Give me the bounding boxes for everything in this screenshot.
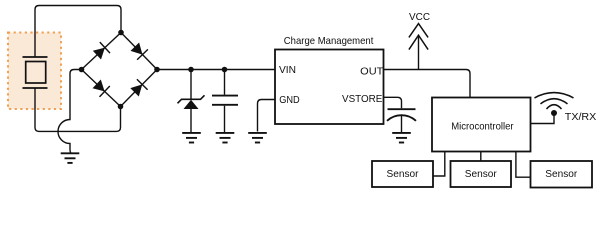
wire: sensor S1 to microcontroller [433, 152, 445, 177]
svg-text:VIN: VIN [279, 64, 296, 76]
wire: GND pin to ground [258, 100, 276, 132]
wire: bridge right corner to VIN pin [157, 69, 275, 71]
wire: sensor S3 to microcontroller [516, 152, 531, 178]
bridge diode D1 (left to top) [93, 42, 110, 59]
ground (GND pin) [248, 133, 267, 143]
node: bridge bottom (AC in) [118, 104, 124, 110]
piezo element X1 [23, 57, 48, 88]
ground (bridge negative) [61, 153, 80, 163]
IC U2: Microcontroller box [432, 98, 531, 152]
svg-text:Sensor: Sensor [387, 168, 419, 180]
wire: bridge left corner to ground (with crossover hop) [58, 70, 82, 154]
svg-text:GND: GND [279, 94, 300, 106]
sensor box S1 [372, 161, 433, 187]
wire: piezo bottom to bridge bottom corner [35, 88, 121, 131]
svg-text:Sensor: Sensor [545, 168, 577, 180]
node: bridge right (DC+) [154, 67, 160, 73]
wire: OUT pin to microcontroller [384, 70, 471, 98]
node: bridge top (AC in) [118, 30, 124, 36]
zener diode Z1 [178, 70, 205, 134]
node: zener tap [188, 67, 194, 73]
piezo transducer enclosure (dashed box) [8, 33, 61, 110]
svg-text:OUT: OUT [360, 66, 384, 78]
ground (C2) [392, 133, 411, 143]
svg-text:VCC: VCC [409, 11, 430, 23]
ground (zener) [182, 133, 201, 143]
bridge diode D2 (top to right) [131, 43, 148, 60]
wire: VSTORE pin to storage capacitor [384, 97, 402, 108]
wire: microcontroller to antenna [531, 113, 555, 124]
svg-text:Charge Management: Charge Management [284, 35, 374, 47]
svg-text:Microcontroller: Microcontroller [451, 120, 514, 132]
capacitor C1 [212, 70, 238, 133]
wire: sensor S2 to microcontroller [480, 152, 482, 162]
sensor box S2 [451, 161, 512, 187]
storage capacitor C2 (polarized) [387, 109, 416, 132]
ground (C1) [216, 133, 235, 143]
IC U1: Charge Management box [275, 50, 384, 125]
svg-text:VSTORE: VSTORE [342, 93, 382, 105]
diode bridge edges [82, 33, 158, 107]
svg-text:Sensor: Sensor [465, 168, 497, 180]
antenna node dot [551, 110, 557, 116]
svg-text:TX/RX: TX/RX [565, 111, 597, 123]
antenna radiation arcs [535, 93, 574, 109]
power symbol VCC [409, 24, 428, 70]
wire: piezo top to bridge top corner [35, 6, 121, 58]
bridge diode D4 (bottom to right) [130, 79, 147, 96]
bridge diode D3 (left to bottom) [93, 80, 110, 97]
sensor box S3 [531, 161, 593, 188]
node: bridge left (DC-) [79, 67, 85, 73]
node: capacitor tap [222, 67, 228, 73]
